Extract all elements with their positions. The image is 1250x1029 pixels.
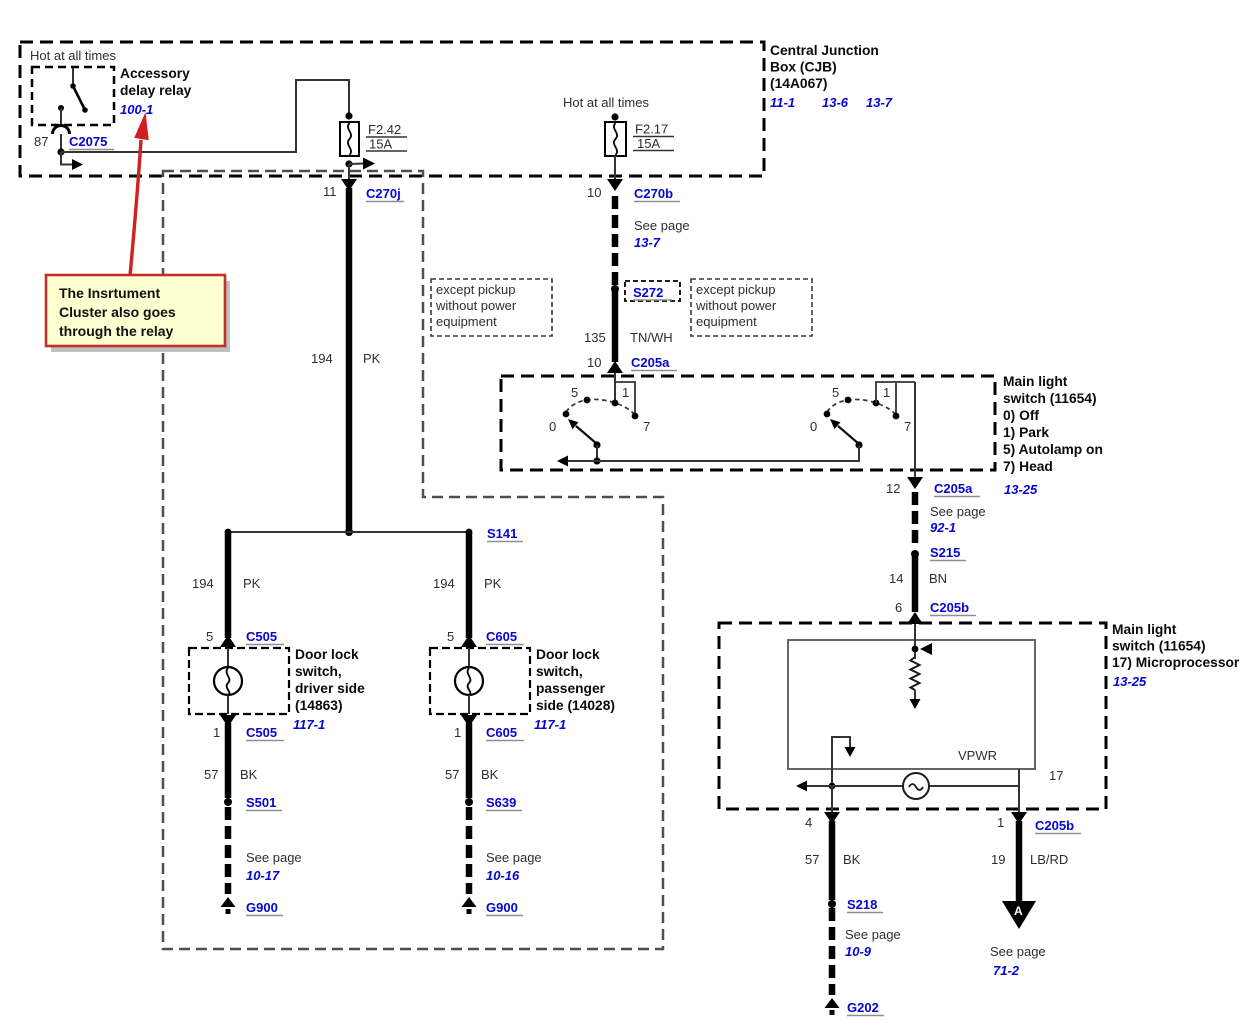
- svg-text:See page: See page: [845, 927, 901, 942]
- svg-text:0: 0: [549, 419, 556, 434]
- wire F2.17 down: [614, 156, 616, 180]
- wiper arm: [838, 426, 859, 444]
- svg-text:S141: S141: [487, 526, 517, 541]
- connector C605 arrowhead (down): [461, 715, 477, 727]
- svg-text:C505: C505: [246, 629, 277, 644]
- accessory delay relay box: [32, 67, 114, 125]
- rotary switch (right half): [810, 382, 915, 449]
- contact 1: [612, 400, 619, 407]
- door lock switch passenger box: [430, 648, 530, 714]
- svg-text:equipment: equipment: [436, 314, 497, 329]
- svg-text:S501: S501: [246, 795, 276, 810]
- source/lamp symbol: [903, 773, 929, 799]
- svg-text:17) Microprocessor: 17) Microprocessor: [1112, 655, 1240, 670]
- wire C605 to S639 (bold BK): [466, 723, 473, 798]
- connector arrowhead pin 4: [824, 812, 840, 824]
- svg-text:See page: See page: [246, 850, 302, 865]
- svg-text:switch,: switch,: [536, 664, 583, 679]
- resistor (pull-up): [911, 657, 920, 690]
- svg-text:194: 194: [311, 351, 333, 366]
- S141 rail wire: [228, 531, 469, 533]
- junction node at S141 rail: [345, 528, 353, 536]
- svg-text:See page: See page: [990, 944, 1046, 959]
- node input: [912, 646, 919, 653]
- svg-text:4: 4: [805, 815, 812, 830]
- wire S639 to G900 (dashed bold): [466, 807, 473, 894]
- svg-text:13-25: 13-25: [1004, 482, 1038, 497]
- connector C270j arrowhead: [341, 179, 357, 191]
- svg-text:10: 10: [587, 355, 601, 370]
- node left: [225, 529, 232, 536]
- svg-text:0: 0: [810, 419, 817, 434]
- svg-text:0) Off: 0) Off: [1003, 408, 1039, 423]
- svg-text:Main light: Main light: [1003, 374, 1068, 389]
- svg-text:57: 57: [204, 767, 218, 782]
- svg-text:F2.17: F2.17: [635, 122, 668, 137]
- arrow into CJB bus: [349, 163, 364, 166]
- svg-text:57: 57: [445, 767, 459, 782]
- fuse F2.17: [605, 122, 626, 156]
- node right (splice S141): [466, 529, 473, 536]
- svg-text:10-16: 10-16: [486, 868, 520, 883]
- splice S639 node: [465, 798, 473, 806]
- svg-text:BK: BK: [843, 852, 861, 867]
- svg-text:See page: See page: [486, 850, 542, 865]
- relay switch contact (movable arm): [70, 68, 88, 113]
- off-page connector A: [1002, 901, 1036, 929]
- wire C205a into light switch: [614, 373, 616, 403]
- svg-text:PK: PK: [484, 576, 502, 591]
- svg-text:passenger: passenger: [536, 681, 606, 696]
- wire rail to pin 17: [1018, 769, 1020, 786]
- svg-text:BK: BK: [240, 767, 258, 782]
- Central Junction Box (CJB) dashed outline: [20, 42, 764, 176]
- svg-text:5: 5: [206, 629, 213, 644]
- relay fixed contact pin 87: [58, 105, 64, 127]
- svg-text:C205b: C205b: [1035, 818, 1074, 833]
- wire to pin 1: [1018, 786, 1020, 813]
- connector C270b arrowhead: [607, 179, 623, 191]
- wire relay output to fuse F2.42: [61, 80, 349, 152]
- passenger door lock branch: [430, 532, 615, 916]
- internal module outline U1: [788, 640, 1035, 769]
- svg-text:without power: without power: [695, 298, 777, 313]
- svg-text:See page: See page: [930, 504, 986, 519]
- wire F2.42 to connector C270j: [348, 164, 350, 180]
- svg-text:11-1: 11-1: [770, 95, 795, 110]
- node fuse F2.42 top: [345, 112, 352, 119]
- svg-text:delay relay: delay relay: [120, 83, 192, 98]
- except pickup box (left): [431, 279, 552, 336]
- svg-text:C270j: C270j: [366, 186, 401, 201]
- svg-text:switch (11654): switch (11654): [1112, 639, 1206, 654]
- harness boundary (L-shaped dashed): [163, 171, 663, 949]
- svg-text:71-2: 71-2: [993, 963, 1020, 978]
- wire C205b into module: [914, 624, 916, 659]
- wiper arm: [576, 426, 597, 444]
- connector C505 arrowhead (up): [220, 635, 236, 647]
- contact 7: [893, 413, 900, 420]
- input sense arrow: [920, 643, 932, 655]
- svg-text:13-25: 13-25: [1113, 674, 1147, 689]
- svg-text:Door lock: Door lock: [295, 647, 359, 662]
- wire linking switch wipers: [568, 445, 859, 461]
- red callout arrow: [130, 140, 141, 276]
- node fuse F2.42 bottom: [345, 160, 352, 167]
- svg-text:Hot at all times: Hot at all times: [563, 95, 649, 110]
- wire pin 4 (bold BK): [829, 821, 836, 900]
- svg-text:S218: S218: [847, 897, 877, 912]
- wire stub arrow below relay node: [61, 152, 72, 165]
- wire S215 to C205b (bold): [912, 556, 919, 612]
- svg-text:PK: PK: [243, 576, 261, 591]
- S272 dashed box: [625, 281, 680, 301]
- wire pin 1 (bold LB/RD): [1016, 821, 1023, 902]
- ground G202: [825, 998, 840, 1008]
- svg-text:driver side: driver side: [295, 681, 365, 696]
- svg-text:1: 1: [883, 385, 890, 400]
- switch lamp symbol: [227, 648, 229, 667]
- svg-text:13-7: 13-7: [866, 95, 893, 110]
- wire S501 to G900 (dashed bold): [225, 807, 232, 894]
- svg-text:S639: S639: [486, 795, 516, 810]
- ground G900 (passenger): [462, 897, 477, 907]
- svg-text:G900: G900: [246, 900, 278, 915]
- contact 0: [563, 411, 570, 418]
- svg-text:(14863): (14863): [295, 698, 343, 713]
- svg-text:VPWR: VPWR: [958, 748, 997, 763]
- svg-text:G202: G202: [847, 1000, 879, 1015]
- node on VPWR rail: [829, 783, 836, 790]
- contact 7: [632, 413, 639, 420]
- svg-text:14: 14: [889, 571, 903, 586]
- svg-text:Box (CJB): Box (CJB): [770, 60, 837, 75]
- internal terminal arrow: [910, 699, 921, 709]
- svg-text:7: 7: [904, 419, 911, 434]
- position arc: [566, 399, 635, 415]
- contact 5: [584, 397, 591, 404]
- main light switch dashed box: [501, 376, 995, 470]
- svg-text:19: 19: [991, 852, 1005, 867]
- hook terminal arrow: [845, 747, 856, 757]
- svg-text:7: 7: [643, 419, 650, 434]
- svg-text:Door lock: Door lock: [536, 647, 600, 662]
- svg-text:15A: 15A: [369, 137, 392, 152]
- svg-text:1: 1: [997, 815, 1004, 830]
- svg-text:(14A067): (14A067): [770, 76, 828, 91]
- connector C205a arrowhead (up): [607, 361, 623, 373]
- junction node relay output: [57, 148, 64, 155]
- svg-text:5: 5: [832, 385, 839, 400]
- svg-text:92-1: 92-1: [930, 520, 956, 535]
- driver door lock branch: [189, 532, 365, 916]
- svg-text:117-1: 117-1: [534, 717, 566, 732]
- svg-text:1: 1: [454, 725, 461, 740]
- jumper hook contacts 1,7 to output: [876, 382, 915, 403]
- svg-text:Main light: Main light: [1112, 622, 1177, 637]
- svg-text:5) Autolamp on: 5) Autolamp on: [1003, 442, 1103, 457]
- svg-text:PK: PK: [363, 351, 381, 366]
- splice S272 node: [611, 285, 619, 293]
- svg-text:6: 6: [895, 600, 902, 615]
- svg-text:switch (11654): switch (11654): [1003, 391, 1097, 406]
- svg-text:side (14028): side (14028): [536, 698, 615, 713]
- wire S141 to C605 (bold PK): [466, 532, 473, 638]
- svg-text:BK: BK: [481, 767, 499, 782]
- svg-text:10-17: 10-17: [246, 868, 280, 883]
- svg-text:through the relay: through the relay: [59, 323, 174, 339]
- svg-text:1: 1: [213, 725, 220, 740]
- fuse F2.42: [340, 122, 359, 156]
- svg-text:10-9: 10-9: [845, 944, 872, 959]
- svg-text:12: 12: [886, 481, 900, 496]
- wire C270j down to S141 rail (bold PK): [346, 188, 353, 532]
- ground G900 (driver): [221, 897, 236, 907]
- wire to pin 4: [831, 786, 833, 813]
- wire C270b to splice S272 (dashed bold): [612, 196, 619, 285]
- switch lamp symbol: [468, 648, 470, 667]
- connector C205b arrowhead (up): [907, 612, 923, 624]
- wire pin 87 down: [60, 134, 62, 152]
- svg-text:5: 5: [571, 385, 578, 400]
- wire S272 to C205a (bold): [612, 289, 619, 362]
- svg-text:1) Park: 1) Park: [1003, 425, 1049, 440]
- svg-text:C605: C605: [486, 725, 517, 740]
- wire C205a to S215 (dashed bold): [912, 492, 919, 548]
- svg-text:G900: G900: [486, 900, 518, 915]
- svg-text:S215: S215: [930, 545, 960, 560]
- annotation callout shadow: [51, 281, 230, 352]
- VPWR rail wire: [806, 785, 1019, 787]
- svg-text:C2075: C2075: [69, 134, 107, 149]
- svg-text:F2.42: F2.42: [368, 122, 401, 137]
- svg-text:87: 87: [34, 134, 48, 149]
- svg-text:Cluster also goes: Cluster also goes: [59, 304, 176, 320]
- svg-text:10: 10: [587, 185, 601, 200]
- contact 0: [824, 411, 831, 418]
- connector C505 arrowhead (down): [220, 715, 236, 727]
- position arc: [827, 399, 896, 415]
- except pickup box (right): [691, 279, 812, 336]
- svg-text:without power: without power: [435, 298, 517, 313]
- door lock switch driver box: [189, 648, 289, 714]
- svg-text:5: 5: [447, 629, 454, 644]
- svg-text:TN/WH: TN/WH: [630, 330, 673, 345]
- svg-text:except pickup: except pickup: [436, 282, 516, 297]
- contact 1: [873, 400, 880, 407]
- svg-text:BN: BN: [929, 571, 947, 586]
- svg-text:7) Head: 7) Head: [1003, 459, 1053, 474]
- svg-text:117-1: 117-1: [293, 717, 325, 732]
- jumper hook to contact 7: [615, 382, 635, 413]
- svg-text:C205a: C205a: [934, 481, 973, 496]
- connector symbol at pin 87: [53, 126, 70, 135]
- svg-text:194: 194: [433, 576, 455, 591]
- svg-text:The Insrtument: The Insrtument: [59, 285, 160, 301]
- svg-text:equipment: equipment: [696, 314, 757, 329]
- wire S218 to G202 (dashed bold): [829, 908, 836, 995]
- splice S501 node: [224, 798, 232, 806]
- contact 5: [845, 397, 852, 404]
- connector C205b arrowhead pin 1: [1011, 812, 1027, 824]
- svg-text:100-1: 100-1: [120, 102, 153, 117]
- node fuse F2.17 top: [611, 113, 618, 120]
- svg-text:11: 11: [323, 184, 337, 199]
- svg-text:S272: S272: [633, 285, 663, 300]
- connector C605 arrowhead (up): [461, 635, 477, 647]
- svg-text:15A: 15A: [637, 136, 660, 151]
- svg-text:135: 135: [584, 330, 606, 345]
- svg-text:C505: C505: [246, 725, 277, 740]
- svg-text:Central Junction: Central Junction: [770, 43, 879, 58]
- svg-text:194: 194: [192, 576, 214, 591]
- splice S218 node: [828, 900, 836, 908]
- svg-text:Accessory: Accessory: [120, 66, 190, 81]
- svg-text:switch,: switch,: [295, 664, 342, 679]
- svg-text:C605: C605: [486, 629, 517, 644]
- svg-text:C205b: C205b: [930, 600, 969, 615]
- connector C205a (bottom) arrowhead: [907, 477, 923, 489]
- svg-text:A: A: [1014, 904, 1023, 918]
- svg-text:See page: See page: [634, 218, 690, 233]
- svg-text:57: 57: [805, 852, 819, 867]
- splice S215 node: [911, 550, 919, 558]
- svg-text:17: 17: [1049, 768, 1063, 783]
- wire S141 to C505 (bold PK): [225, 532, 232, 638]
- wire C505 to S501 (bold BK): [225, 723, 232, 798]
- main light switch microprocessor dashed box: [719, 623, 1106, 809]
- internal hook wire: [832, 737, 850, 786]
- svg-text:except pickup: except pickup: [696, 282, 776, 297]
- svg-text:C205a: C205a: [631, 355, 670, 370]
- svg-text:1: 1: [622, 385, 629, 400]
- rotary switch (left half): [549, 382, 650, 465]
- svg-text:LB/RD: LB/RD: [1030, 852, 1068, 867]
- annotation callout box: [46, 275, 225, 346]
- wire switch output down: [914, 382, 916, 478]
- svg-text:C270b: C270b: [634, 186, 673, 201]
- svg-text:13-6: 13-6: [822, 95, 849, 110]
- svg-text:13-7: 13-7: [634, 235, 661, 250]
- svg-text:Hot at all times: Hot at all times: [30, 48, 116, 63]
